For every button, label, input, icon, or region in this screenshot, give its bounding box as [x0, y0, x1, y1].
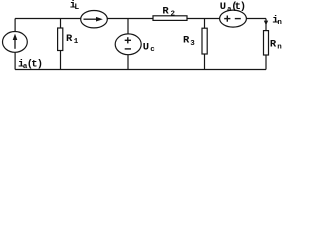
svg-text:): ) — [240, 1, 246, 13]
svg-text:U: U — [143, 41, 149, 53]
svg-text:R: R — [270, 39, 277, 51]
svg-text:a: a — [227, 6, 232, 14]
svg-text:1: 1 — [74, 38, 79, 46]
svg-text:3: 3 — [190, 40, 195, 48]
svg-text:a: a — [23, 63, 28, 71]
svg-text:n: n — [277, 44, 282, 52]
svg-text:): ) — [37, 58, 43, 70]
svg-text:n: n — [277, 19, 282, 27]
svg-text:U: U — [220, 1, 226, 13]
svg-text:c: c — [150, 46, 155, 54]
svg-text:R: R — [66, 33, 73, 45]
svg-text:R: R — [183, 35, 190, 47]
svg-text:2: 2 — [171, 11, 176, 19]
svg-text:L: L — [74, 3, 79, 12]
svg-text:R: R — [162, 5, 169, 17]
